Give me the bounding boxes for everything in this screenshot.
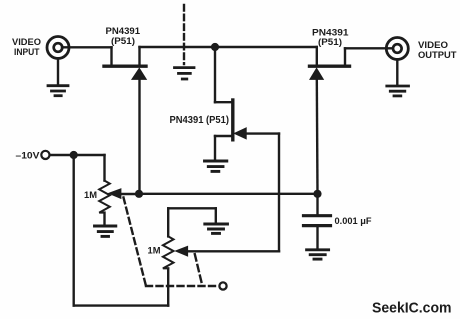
ground J1 (48, 58, 68, 95)
node top rail junction (211, 43, 219, 51)
transistor Q2 PN4391 (310, 47, 350, 79)
dashed gang link R2 (195, 254, 202, 283)
wire R2 top to ground (168, 207, 216, 209)
svg-text:–10V: –10V (16, 150, 41, 161)
label R2 1M (148, 246, 161, 257)
node -10V junction (70, 151, 78, 159)
wire Q3 gate to R2 wiper (186, 134, 279, 252)
svg-text:OUTPUT: OUTPUT (418, 50, 457, 61)
label C1 0.001 uF (335, 216, 372, 226)
terminal -10V (41, 151, 49, 159)
svg-text:PN4391 (P51): PN4391 (P51) (170, 115, 230, 126)
wire rail to Q3 drain (214, 47, 216, 102)
wire Q1 gate (138, 79, 140, 194)
wire -10V to R1 top (50, 154, 105, 156)
wire Q2 gate (316, 79, 319, 194)
terminal gang control (219, 282, 226, 289)
wire J1 to Q1 source (62, 46, 112, 48)
svg-text:INPUT: INPUT (14, 47, 40, 58)
ground Q3 source (205, 161, 227, 171)
wire top rail (140, 46, 317, 48)
watermark SeekIC.com (372, 300, 452, 316)
connector J1 VIDEO INPUT (47, 37, 69, 59)
wire shield dashed (183, 5, 185, 64)
label Q2 PN4391 (P51) (312, 27, 349, 48)
label -10V (16, 150, 41, 161)
label VIDEO INPUT (12, 37, 42, 58)
potentiometer R2 1M (163, 208, 188, 268)
ground J2 (387, 59, 409, 96)
transistor Q1 PN4391 (104, 47, 146, 79)
ground shield (175, 68, 195, 79)
potentiometer R1 1M (99, 155, 139, 225)
node Q1 gate junction (135, 190, 143, 198)
connector J2 VIDEO OUTPUT (386, 38, 408, 60)
label Q1 PN4391 (P51) (106, 26, 141, 47)
svg-text:1M: 1M (148, 246, 161, 257)
ground R1 (95, 226, 116, 236)
wire gate bus (139, 193, 318, 195)
label Q3 PN4391 (P51) (170, 115, 230, 126)
node Q2 gate junction (313, 190, 321, 198)
label R1 1M (84, 190, 97, 201)
svg-text:0.001 μF: 0.001 μF (335, 216, 372, 226)
svg-text:1M: 1M (84, 190, 97, 201)
ground R2 top (205, 224, 228, 233)
svg-text:(P51): (P51) (111, 36, 135, 47)
label VIDEO OUTPUT (418, 40, 457, 61)
svg-text:SeekIC.com: SeekIC.com (372, 300, 452, 316)
wire Q2 drain to J2 (345, 47, 392, 49)
svg-text:(P51): (P51) (318, 37, 342, 48)
dashed gang link R1 (124, 198, 219, 287)
wire -10V drop to R2 bottom (74, 155, 169, 306)
ground C1 (307, 250, 329, 259)
transistor Q3 PN4391 (215, 100, 279, 159)
capacitor C1 (304, 194, 331, 248)
